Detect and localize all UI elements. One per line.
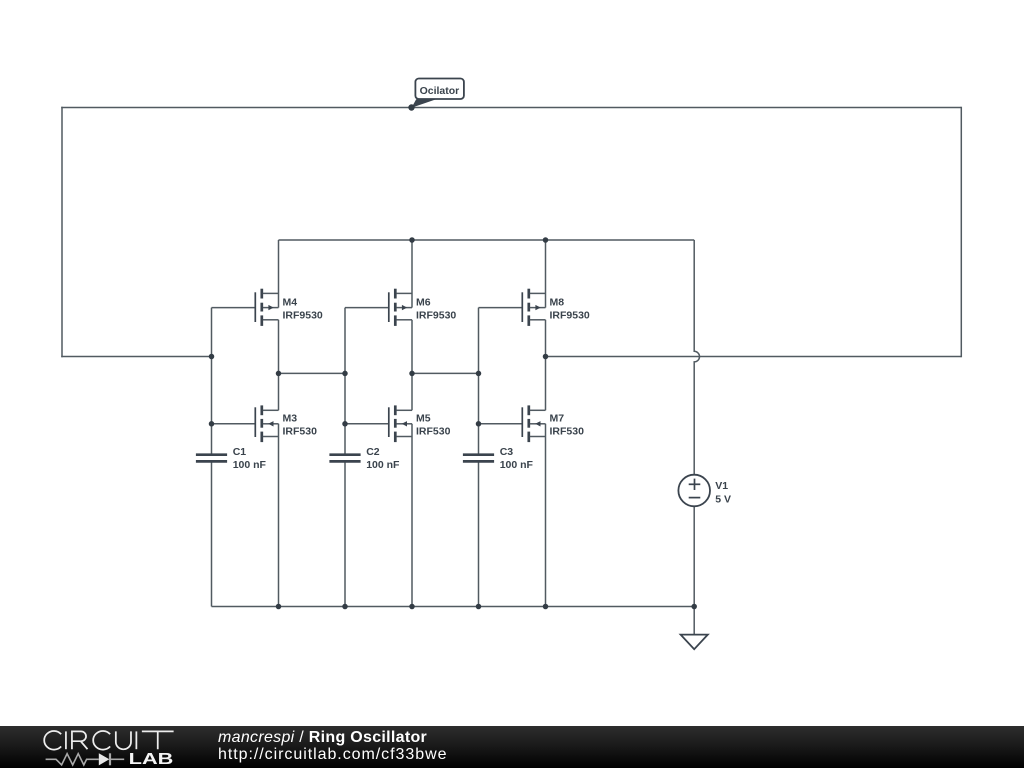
CircuitLab logo (0, 726, 220, 767)
svg-text:M6: M6 (416, 297, 431, 309)
transistor M3 NMOS (212, 405, 279, 442)
junction rail M5 (409, 604, 415, 610)
wire V1 top lead with hop (694, 240, 699, 475)
junction rail M7 (543, 604, 549, 610)
junction out1 left (276, 371, 282, 377)
net flag Ocilator (412, 79, 464, 108)
capacitor C3 (463, 455, 494, 462)
svg-text:IRF530: IRF530 (416, 426, 451, 438)
junction rail V1 (691, 604, 697, 610)
transistor M7 NMOS (479, 405, 546, 442)
wire source vertical M7 to ground rail (545, 424, 547, 607)
wire capacitor C2 lower lead (344, 462, 346, 606)
footer credit text (218, 729, 447, 763)
capacitor C2 (329, 455, 360, 462)
svg-text:C2: C2 (366, 446, 380, 458)
wire drain vertical M8-M7 (545, 320, 547, 411)
junction M7 gate (476, 421, 482, 427)
svg-text:IRF9530: IRF9530 (550, 310, 590, 322)
svg-text:LAB: LAB (129, 751, 174, 767)
svg-text:IRF530: IRF530 (550, 426, 585, 438)
junction rail C3 (476, 604, 482, 610)
wire top rail (61, 107, 961, 109)
svg-text:M7: M7 (550, 413, 565, 425)
transistor M4 PMOS (212, 240, 279, 326)
svg-text:Ocilator: Ocilator (420, 85, 460, 97)
svg-text:V1: V1 (715, 480, 728, 492)
svg-text:C1: C1 (233, 446, 247, 458)
wire capacitor C3 lower lead (478, 462, 480, 606)
junction rail M3 (276, 604, 282, 610)
svg-text:M8: M8 (550, 297, 565, 309)
svg-text:100 nF: 100 nF (500, 459, 534, 471)
wire gate vertical M8/M7 (478, 308, 480, 454)
junction VDD stage3 (543, 237, 549, 243)
transistor M8 PMOS (479, 240, 546, 326)
junction out2 left (409, 371, 415, 377)
wire drain vertical M4-M3 (278, 320, 280, 411)
junction out2 right (476, 371, 482, 377)
svg-text:M4: M4 (283, 297, 298, 309)
wire output stage2 to stage3 (412, 372, 479, 374)
svg-text:M5: M5 (416, 413, 431, 425)
junction stage3 drain to feedback (543, 354, 549, 360)
voltage source V1 (678, 475, 710, 507)
junction feedback to stage1 gate (209, 354, 215, 360)
wire bottom ground rail (212, 606, 695, 608)
junction VDD stage2 (409, 237, 415, 243)
svg-text:IRF9530: IRF9530 (283, 310, 323, 322)
footer bar (0, 726, 1024, 768)
svg-text:100 nF: 100 nF (233, 459, 267, 471)
wire VDD rail (279, 239, 695, 241)
svg-text:100 nF: 100 nF (366, 459, 400, 471)
wire left vertical (61, 107, 63, 358)
svg-text:M3: M3 (283, 413, 298, 425)
wire V1 bottom lead (693, 506, 695, 606)
logo resistor-diode line (46, 753, 125, 765)
node flag attach (408, 104, 414, 110)
junction M3 gate (209, 421, 215, 427)
svg-text:C3: C3 (500, 446, 514, 458)
capacitor C1 (196, 455, 227, 462)
transistor M5 NMOS (345, 405, 412, 442)
transistor M6 PMOS (345, 240, 412, 326)
svg-text:IRF530: IRF530 (283, 426, 318, 438)
wire feedback right segment (546, 356, 962, 358)
wire feedback left segment (61, 356, 211, 358)
wire source vertical M5 to ground rail (411, 424, 413, 607)
wire right vertical (960, 107, 962, 358)
wire output stage1 to stage2 (279, 372, 346, 374)
wire gate vertical M6/M5 (344, 308, 346, 454)
wire drain vertical M6-M5 (411, 320, 413, 411)
junction out1 right (342, 371, 348, 377)
svg-text:5 V: 5 V (715, 494, 731, 506)
junction rail C2 (342, 604, 348, 610)
logo diode triangle (99, 753, 110, 765)
logo word CIRCUIT (44, 731, 173, 750)
wire gate vertical M4/M3 (211, 308, 213, 454)
wire capacitor C1 lower lead (211, 462, 213, 606)
junction M5 gate (342, 421, 348, 427)
ground symbol (681, 607, 708, 650)
wire source vertical M3 to ground rail (278, 424, 280, 607)
svg-text:IRF9530: IRF9530 (416, 310, 456, 322)
